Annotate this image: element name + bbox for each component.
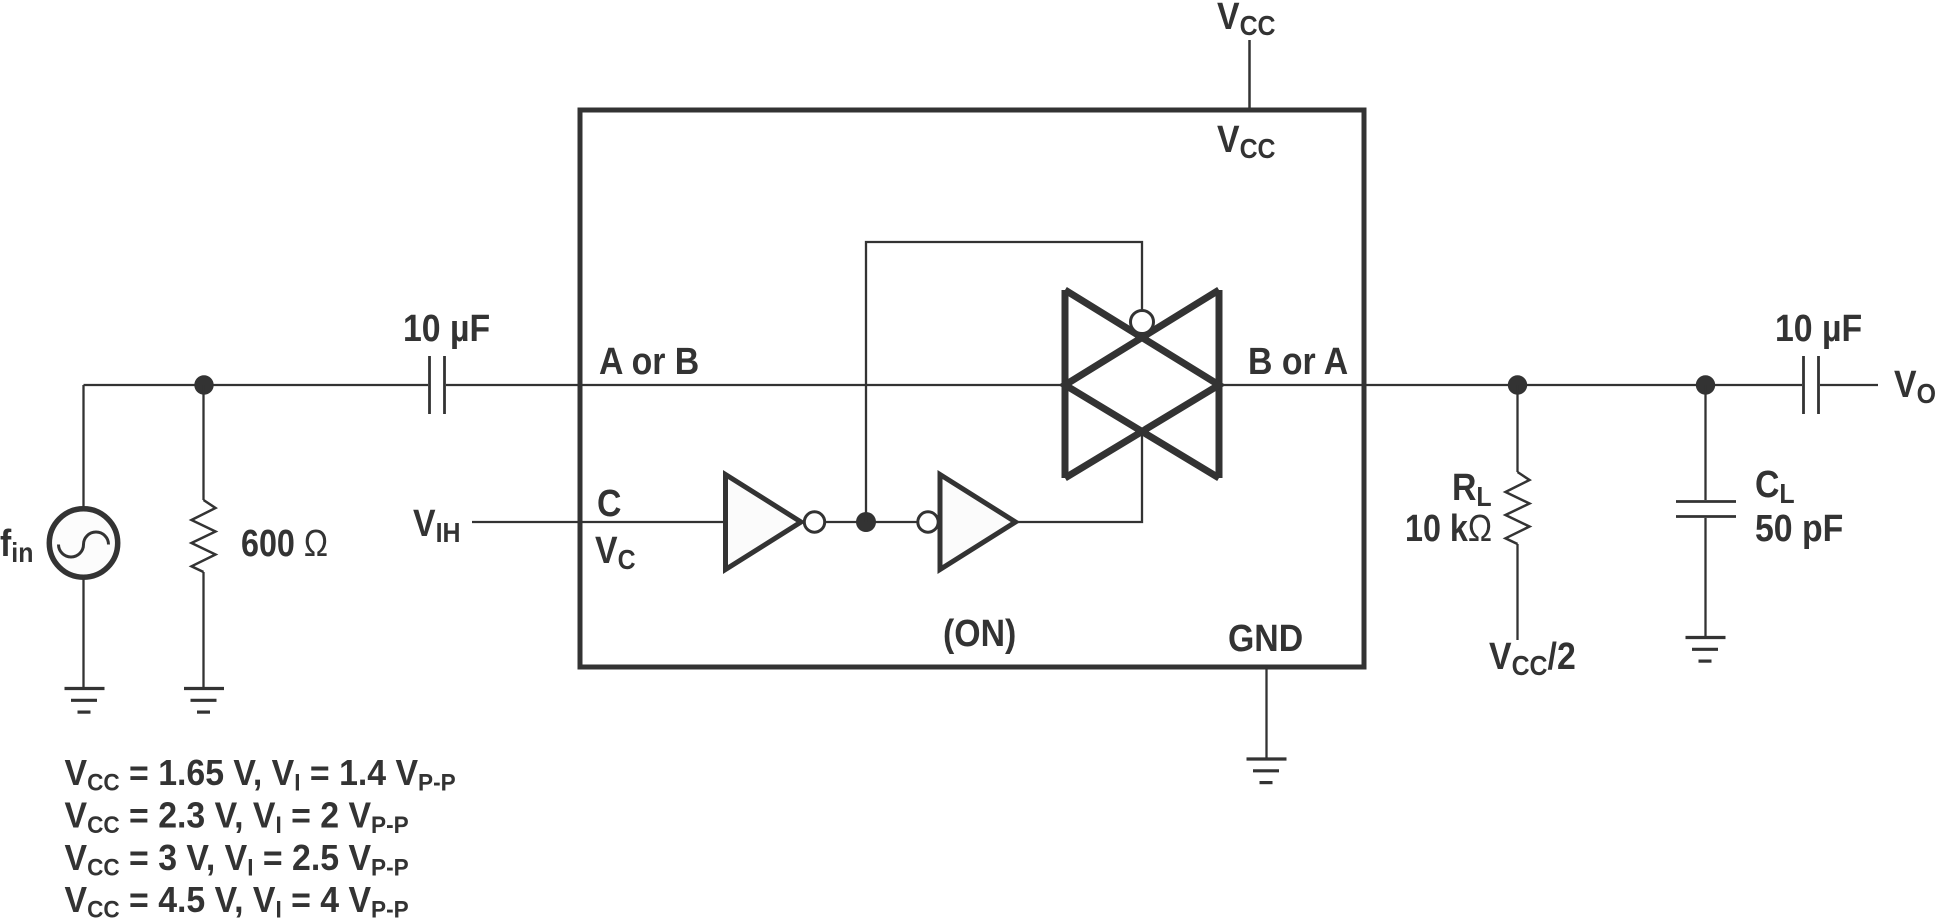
svg-text:(ON): (ON) <box>943 611 1016 654</box>
wire: inverter U3 output to transmission gate bottom <box>1016 431 1142 522</box>
svg-text:VCC: VCC <box>1217 117 1276 164</box>
svg-text:VCC = 4.5 V, VI = 4 VP-P: VCC = 4.5 V, VI = 4 VP-P <box>65 880 409 918</box>
svg-text:10 µF: 10 µF <box>1775 306 1862 349</box>
bubble on inverter U3 input <box>918 512 938 532</box>
svg-text:CL: CL <box>1755 462 1795 509</box>
inverter U2 <box>726 475 802 570</box>
wire: transmission-gate right bar to output coupling cap <box>1219 384 1802 386</box>
resistor R1 600 ohm <box>192 385 216 688</box>
wire: VIH control line into box to inverter input <box>472 521 725 523</box>
wire: feedback from node B up and over to transmission gate top bubble <box>866 242 1142 522</box>
VCC supply stub at box top <box>1248 40 1251 108</box>
node A: junction dot at input <box>194 375 213 394</box>
svg-text:fin: fin <box>0 521 33 568</box>
resistor RL 10k <box>1506 385 1530 640</box>
ground for resistor R1 <box>184 689 224 713</box>
inverter U3 <box>940 475 1016 570</box>
svg-text:10 µF: 10 µF <box>403 306 490 349</box>
wire: main signal line from source node to left coupling cap <box>84 384 429 386</box>
svg-text:GND: GND <box>1228 616 1303 659</box>
svg-text:VCC = 2.3 V, VI = 2 VP-P: VCC = 2.3 V, VI = 2 VP-P <box>65 796 409 839</box>
svg-text:600 Ω: 600 Ω <box>241 523 328 565</box>
device under test box U1 <box>580 110 1364 667</box>
node C: output junction dot at RL <box>1508 375 1527 394</box>
bubble on inverter U2 output <box>804 512 824 532</box>
capacitor CL 50pF <box>1676 385 1736 637</box>
wire: GND stub below box <box>1265 668 1267 758</box>
ground for GND pin <box>1247 759 1287 783</box>
capacitor C1 10uF input coupling <box>430 356 445 414</box>
svg-text:A or B: A or B <box>599 339 699 382</box>
transmission gate Q1 <box>1065 290 1219 478</box>
svg-text:VC: VC <box>595 528 636 575</box>
svg-text:VO: VO <box>1894 362 1936 409</box>
wire: output coupling cap to VO terminal <box>1820 384 1878 386</box>
bubble on transmission gate control <box>1131 311 1154 334</box>
svg-text:10 kΩ: 10 kΩ <box>1405 508 1492 550</box>
svg-text:RL: RL <box>1452 465 1492 512</box>
node D: output junction dot at CL <box>1696 375 1715 394</box>
svg-text:VCC: VCC <box>1217 0 1276 41</box>
ground for capacitor CL <box>1686 638 1726 662</box>
wire: inverter U2 bubble to inverter U3 bubble <box>825 521 918 523</box>
svg-text:B or A: B or A <box>1248 339 1348 382</box>
node B: control junction dot <box>856 512 876 532</box>
svg-text:C: C <box>597 481 621 524</box>
svg-text:VCC/2: VCC/2 <box>1489 634 1576 681</box>
wire: left coupling cap to transmission-gate left bar (A or B line) <box>446 384 1065 386</box>
svg-text:VIH: VIH <box>413 501 460 548</box>
svg-text:VCC = 3 V, VI = 2.5 VP-P: VCC = 3 V, VI = 2.5 VP-P <box>65 838 409 881</box>
source fin V1 <box>49 385 117 688</box>
svg-text:VCC = 1.65 V, VI = 1.4 VP-P: VCC = 1.65 V, VI = 1.4 VP-P <box>65 753 456 796</box>
ground for source fin <box>65 689 105 713</box>
capacitor C3 10uF output coupling <box>1804 356 1819 414</box>
svg-text:50 pF: 50 pF <box>1755 506 1843 549</box>
